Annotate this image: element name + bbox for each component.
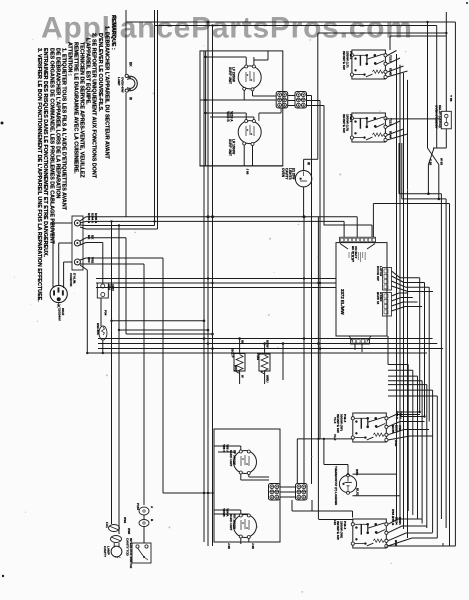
svg-text:OVEN: OVEN <box>281 168 285 178</box>
label SU3 <box>222 444 230 453</box>
wire S1 out <box>387 51 408 78</box>
wire F5-F6 <box>143 515 145 543</box>
fuse F4 <box>111 536 122 543</box>
connector CN4 <box>296 484 308 501</box>
wire CN4 pass <box>297 217 312 511</box>
svg-text:P49-4: P49-4 <box>343 521 347 530</box>
connector CN1 <box>276 92 288 109</box>
label S2 <box>342 114 353 133</box>
label R1 <box>231 340 245 378</box>
svg-text:FU1: FU1 <box>105 522 109 528</box>
wire R2 side drop <box>282 342 285 380</box>
wire right bus 2 <box>445 199 447 528</box>
wire run W92 <box>86 264 144 505</box>
label L2 wires <box>87 257 95 264</box>
svg-text:INFINITE SW: INFINITE SW <box>342 114 346 133</box>
label 15A <box>108 284 116 291</box>
connector CN5 <box>383 268 392 291</box>
wire SU3 out <box>241 474 269 480</box>
svg-text:120/240V: 120/240V <box>58 308 62 321</box>
label S4 wires <box>391 509 402 546</box>
wire right bus 3 <box>442 543 444 546</box>
label S4 <box>336 521 347 540</box>
box surface unit cluster LF/LR <box>200 51 283 166</box>
thermostat TOD1 <box>339 474 356 495</box>
label SU3b <box>229 450 237 467</box>
wire bundle B2 <box>96 282 336 284</box>
wire top run 1 <box>126 21 455 148</box>
wire S3 out <box>388 415 433 441</box>
wire X leg R <box>438 165 440 199</box>
svg-text:LAMP: LAMP <box>117 77 121 86</box>
svg-text:Y84 A: Y84 A <box>226 508 230 517</box>
board A1 M/W ELEC <box>336 243 387 336</box>
label SU4b <box>229 514 237 531</box>
svg-text:1500W (LR): 1500W (LR) <box>346 114 350 131</box>
wire DS2 down <box>303 187 305 217</box>
terminal L2 <box>74 259 80 265</box>
wire SU3 feeds <box>214 446 241 452</box>
wire right edge <box>373 22 455 546</box>
connector CN2 <box>295 92 307 109</box>
svg-text:BL51: BL51 <box>356 488 360 496</box>
wire SU2 feeds <box>204 112 253 120</box>
wire run R144B <box>86 215 357 218</box>
box surface unit cluster RF/RR <box>214 429 280 542</box>
label S1 wires <box>389 55 393 76</box>
fuse F2 thermal <box>99 326 107 340</box>
svg-text:LAMP: LAMP <box>107 546 111 555</box>
svg-text:Y84 B: Y84 B <box>391 517 395 526</box>
wire CN3-CN4 <box>280 487 296 497</box>
terminal N <box>74 240 80 246</box>
wire run R144A <box>86 220 344 222</box>
svg-text:LATCH: LATCH <box>379 266 383 276</box>
strip fanout <box>340 244 375 263</box>
wire T1 fanout <box>80 217 86 229</box>
svg-text:W92: W92 <box>123 517 127 524</box>
svg-text:P130: P130 <box>136 503 140 510</box>
svg-text:P34: P34 <box>104 310 108 316</box>
label S3 <box>336 414 347 433</box>
svg-text:R145 B: R145 B <box>94 213 98 224</box>
wire CN2 out <box>307 96 325 107</box>
svg-text:W/BU: W/BU <box>266 375 270 382</box>
wire right bus 1 <box>440 194 442 519</box>
svg-text:P49-2: P49-2 <box>349 51 353 60</box>
wire T2 fanout <box>80 238 86 245</box>
switch S3 surface unit RR <box>353 413 387 442</box>
wire conn drop 2 <box>319 106 321 439</box>
svg-text:SURF UNIT: SURF UNIT <box>228 67 232 84</box>
svg-text:W 88: W 88 <box>440 158 444 165</box>
wire conn drop 3 <box>323 106 325 226</box>
svg-text:Y84 B: Y84 B <box>222 508 226 517</box>
switch S5 thermolock <box>132 543 151 563</box>
wire top run 3 <box>318 32 447 34</box>
label W56 <box>353 469 401 496</box>
wire CN5 fan <box>392 271 434 292</box>
wire TOD bottom <box>347 473 349 475</box>
note french service text <box>36 15 116 302</box>
surface unit SU3 <box>234 450 257 475</box>
svg-text:INFINITE SW: INFINITE SW <box>342 51 346 70</box>
wire S4 out <box>388 519 438 546</box>
svg-text:RELAY (LATCH): RELAY (LATCH) <box>438 105 442 128</box>
wire drop 2 <box>118 224 120 534</box>
wire X leg L <box>427 165 429 194</box>
svg-text:3372 EL/MW: 3372 EL/MW <box>340 289 345 315</box>
label S5 <box>126 538 134 568</box>
label power cord <box>69 273 77 286</box>
svg-text:D'ALIM.: D'ALIM. <box>73 273 77 284</box>
svg-text:Y1-3: Y1-3 <box>333 417 337 424</box>
svg-text:CAVITY: CAVITY <box>285 168 289 180</box>
svg-text:BK: BK <box>241 340 245 344</box>
svg-text:1. DEBRANCHER L'APPAREIL DU SE: 1. DEBRANCHER L'APPAREIL DU SECTEUR AVAN… <box>104 26 110 159</box>
svg-text:CORDON: CORDON <box>69 273 73 286</box>
svg-text:J 98: J 98 <box>246 169 250 175</box>
svg-text:Y213: Y213 <box>389 55 393 62</box>
svg-text:R144 B: R144 B <box>87 213 91 224</box>
wire run R145B <box>86 225 155 227</box>
svg-text:D'ENLEVER LE COUVRE-FILS.: D'ENLEVER LE COUVRE-FILS. <box>97 33 103 112</box>
svg-text:LF 2350W: LF 2350W <box>232 67 236 82</box>
wire run N2 <box>86 243 103 284</box>
wire cord N <box>59 243 72 288</box>
label F5 <box>136 503 154 522</box>
wire S4 bottom <box>386 545 455 547</box>
wire drop W92b <box>110 220 112 524</box>
label L1 wires <box>87 213 98 224</box>
wire SU1 top feeds <box>204 51 268 65</box>
wire CN1-CN2 <box>288 96 295 106</box>
label S3 wires <box>391 411 403 447</box>
svg-text:60HZ: 60HZ <box>61 308 65 316</box>
wire box1 inner bus <box>205 51 207 166</box>
wire box1 bottom <box>200 165 283 167</box>
svg-text:J 98: J 98 <box>251 543 255 549</box>
svg-text:3301 P: 3301 P <box>231 348 235 358</box>
wire CN6 fan <box>392 293 423 311</box>
label SU4 <box>222 508 230 517</box>
svg-text:W56: W56 <box>355 469 359 476</box>
wire boxB runs <box>399 143 446 200</box>
wire bus 324 <box>317 282 319 284</box>
wire boxA up <box>390 36 446 50</box>
label DS2 <box>281 168 296 180</box>
label K1 <box>435 105 442 129</box>
svg-text:BK: BK <box>129 62 133 67</box>
wire cord L1 <box>53 223 72 287</box>
svg-text:R144 A: R144 A <box>91 213 95 224</box>
wire bundle mid2 <box>87 337 443 353</box>
wire harness left stubs <box>387 336 389 365</box>
svg-text:R144: R144 <box>389 131 393 139</box>
fuse F3 oven lamp <box>109 525 120 532</box>
connector CN6 <box>383 293 392 317</box>
resistor R1 bake <box>234 337 245 384</box>
svg-text:Y 88: Y 88 <box>429 159 433 165</box>
svg-text:DES ORGANES DE COMMANDE. LES P: DES ORGANES DE COMMANDE. LES PROBLEMES D… <box>49 48 55 245</box>
wire bundle B1 <box>96 277 429 421</box>
switch S2 surface unit LR <box>352 113 386 142</box>
svg-text:W95: W95 <box>127 528 131 535</box>
svg-text:R145: R145 <box>389 68 393 76</box>
wire pair left bus A <box>155 10 158 229</box>
label S3 in <box>333 417 337 441</box>
svg-text:BU/W: BU/W <box>266 340 270 348</box>
connector strip P1 top <box>340 237 376 242</box>
svg-text:2350W (LF): 2350W (LF) <box>346 51 350 68</box>
svg-text:W: W <box>307 162 311 165</box>
label S2 wires <box>389 118 393 139</box>
svg-text:W: W <box>129 97 133 100</box>
connector CN3 <box>269 484 281 501</box>
wire SU2 bottom <box>244 108 281 175</box>
svg-text:THERMOSTAT (P) LO/HI/BR: THERMOSTAT (P) LO/HI/BR <box>334 466 338 506</box>
wire DS2 top <box>304 159 318 170</box>
wire TOD top <box>324 439 348 475</box>
label N wires <box>87 235 95 240</box>
wire DS2 right up <box>317 33 319 159</box>
svg-text:(2) 25W: (2) 25W <box>292 168 296 179</box>
label SU2 <box>226 111 234 122</box>
label DS3 <box>103 546 111 558</box>
crossover X1 <box>428 148 439 165</box>
switch S4 surface unit RF <box>353 519 387 548</box>
label SU1 <box>228 67 236 84</box>
fuse F6 <box>139 520 149 527</box>
lamp DS1 (oven sensor) <box>121 74 137 92</box>
lamp DS2 oven light <box>295 171 311 187</box>
switch S1 surface unit LF <box>352 50 386 79</box>
svg-text:SURF UNIT: SURF UNIT <box>228 139 232 156</box>
resistor R2 broil <box>259 342 270 384</box>
svg-text:GY/BK: GY/BK <box>379 292 383 302</box>
wire bus mid R1 <box>207 22 209 546</box>
label S1 <box>342 51 353 70</box>
wire strip feeds <box>324 217 372 238</box>
label SU2b <box>228 139 236 156</box>
svg-text:V1-0: V1-0 <box>333 434 337 441</box>
svg-text:3000W (RF): 3000W (RF) <box>340 414 344 431</box>
wire V10 line <box>297 438 352 440</box>
wire run 4th <box>86 228 158 230</box>
svg-text:3. VERIFIER LE BON FONCTIONNEM: 3. VERIFIER LE BON FONCTIONNEMENT DE L'A… <box>36 48 42 302</box>
svg-text:Y 88: Y 88 <box>449 95 453 102</box>
wire cluster feed <box>163 492 214 494</box>
wire corner pairA <box>154 221 156 224</box>
svg-text:BK85: BK85 <box>391 425 395 433</box>
wire run N1 <box>86 238 126 334</box>
wire bus mid L <box>203 51 205 542</box>
svg-text:INTERLOCK SWITCH: INTERLOCK SWITCH <box>129 538 133 568</box>
wire bus mid R2 <box>212 26 214 547</box>
terminal L1 <box>74 220 80 226</box>
wire SU1 bottom <box>200 90 276 101</box>
svg-text:LIGHTS: LIGHTS <box>288 168 292 180</box>
wire SU4 out <box>241 538 249 544</box>
label X legs <box>429 158 444 165</box>
wire bus 320 <box>318 217 352 520</box>
svg-text:Y213: Y213 <box>389 118 393 125</box>
svg-text:(BK): (BK) <box>234 365 238 371</box>
svg-text:P149: P149 <box>256 353 260 360</box>
label CN6 <box>376 292 383 305</box>
wire bus right4 <box>397 54 408 538</box>
wire SU4 feeds <box>214 510 249 514</box>
lamp DS3 cavity <box>111 543 122 558</box>
wire harness corner stack <box>388 365 437 539</box>
wire run R60 <box>80 258 163 493</box>
svg-text:OVEN 40W: OVEN 40W <box>121 77 125 93</box>
wire K1 top <box>445 12 447 111</box>
svg-text:REMARQUE :: REMARQUE : <box>110 15 116 50</box>
relay K1 latch <box>441 111 451 129</box>
wire conn drop 1 <box>311 106 313 484</box>
svg-text:W: W <box>241 375 245 378</box>
label CN5 <box>376 266 383 281</box>
wire lamp to bundle <box>125 93 127 217</box>
label R2 <box>256 340 270 382</box>
svg-text:1500W (RR): 1500W (RR) <box>340 521 344 538</box>
label 120 240V <box>58 308 66 321</box>
svg-text:MW-65C: MW-65C <box>96 323 100 336</box>
wire left stub <box>52 222 54 224</box>
wire T3 fanout <box>80 258 86 264</box>
svg-text:RR 1500W: RR 1500W <box>233 514 237 529</box>
svg-text:P49-3: P49-3 <box>343 414 347 423</box>
wire lamp feed top <box>125 10 127 78</box>
surface unit SU2 <box>238 120 261 146</box>
svg-text:B59: B59 <box>394 540 398 546</box>
wire S2 out <box>385 119 441 140</box>
label wires f <box>123 517 131 535</box>
wire W84B long <box>292 500 353 518</box>
svg-text:SURF UNIT: SURF UNIT <box>229 514 233 531</box>
surface unit SU1 <box>238 65 261 91</box>
wire bundle mid1 <box>110 320 214 336</box>
wire bundle B3 <box>96 287 336 289</box>
plug P1 power cord <box>50 285 67 307</box>
wire P2 stubs <box>355 344 362 352</box>
svg-text:J 98: J 98 <box>227 543 231 549</box>
svg-text:P49-1: P49-1 <box>349 114 353 123</box>
wire F2 down <box>102 340 104 354</box>
wire F1 down <box>100 298 102 326</box>
surface unit SU4 <box>234 514 257 539</box>
fuse holder F1 <box>97 283 108 298</box>
terminal block TB1 <box>72 216 83 270</box>
svg-text:LR 1500W: LR 1500W <box>232 139 236 154</box>
wire breaker loop <box>86 352 88 354</box>
wire Y88 runs <box>397 411 426 418</box>
fuse F5 monitor <box>139 507 149 515</box>
wire top run 2 <box>155 24 437 148</box>
connector strip P2 bottom <box>349 336 371 344</box>
wire K1 bottom <box>433 129 446 148</box>
label lamp <box>117 77 125 93</box>
svg-text:CAVITY: CAVITY <box>103 546 107 558</box>
svg-text:CAVITY TOD: CAVITY TOD <box>126 538 130 557</box>
